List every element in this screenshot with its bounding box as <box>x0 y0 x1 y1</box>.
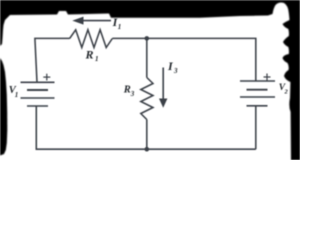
svg-text:I: I <box>167 59 174 73</box>
plus sign of V2 <box>264 74 271 81</box>
scan background: black torn edges <box>0 0 300 160</box>
wire: V2 bottom stub <box>255 106 257 149</box>
svg-text:3: 3 <box>130 90 135 98</box>
svg-text:R: R <box>85 48 94 62</box>
resistor R1 <box>70 30 113 48</box>
node dot bottom <box>145 147 150 152</box>
node dot top <box>145 36 150 41</box>
battery V1 <box>21 82 55 106</box>
wire: top rail left of R1 <box>35 38 70 82</box>
svg-text:2: 2 <box>284 89 289 96</box>
current arrow I3 <box>159 68 167 108</box>
svg-text:1: 1 <box>118 23 122 31</box>
bottom-left black bar <box>0 58 7 156</box>
resistor R3 <box>141 78 153 120</box>
wire: middle branch bottom <box>146 120 148 150</box>
svg-text:1: 1 <box>15 91 18 99</box>
svg-text:R: R <box>123 85 131 96</box>
svg-text:3: 3 <box>173 67 178 75</box>
top black strip + right black column <box>0 0 300 160</box>
wire: middle branch top <box>146 38 148 77</box>
circuit drawing <box>21 17 276 152</box>
battery V2 <box>240 81 275 106</box>
current arrow I1 <box>72 17 111 25</box>
wire: V1 bottom stub + bottom rail <box>36 106 256 149</box>
svg-text:1: 1 <box>95 55 99 63</box>
wire: top rail right of R1 <box>112 38 256 81</box>
plus sign of V1 <box>43 74 50 81</box>
